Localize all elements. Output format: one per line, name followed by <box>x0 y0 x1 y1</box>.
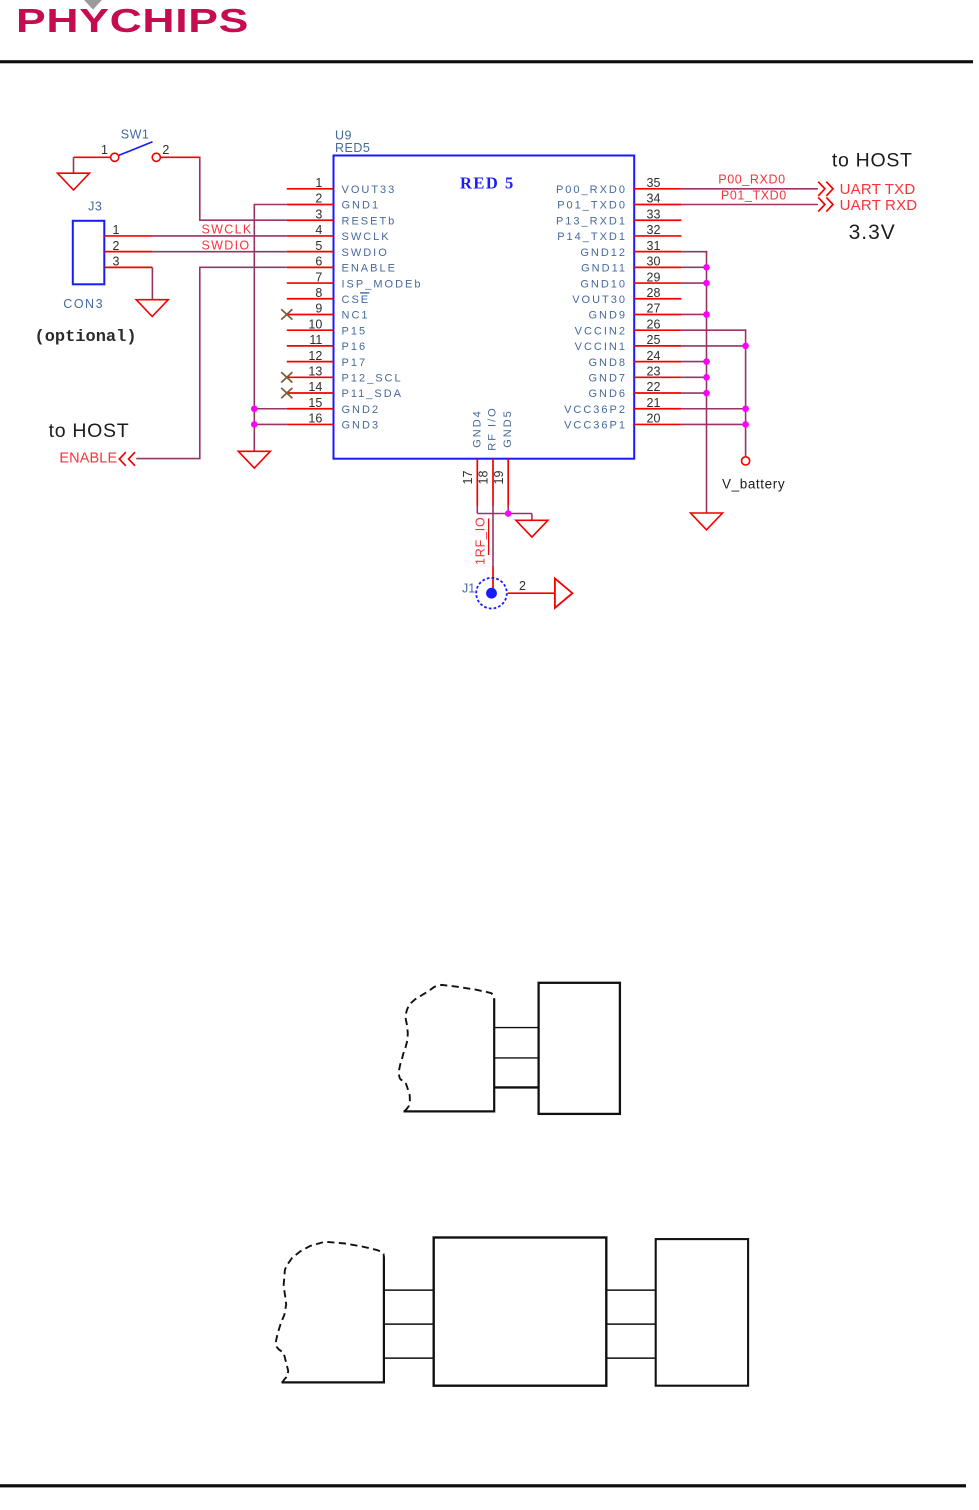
figure A line 1 <box>494 1027 539 1029</box>
svg-text:3: 3 <box>113 255 120 269</box>
svg-text:GND5: GND5 <box>502 409 514 448</box>
wire SWDIO J3.2 to U9.5 <box>152 251 286 253</box>
pin stub right 24 <box>634 361 681 363</box>
svg-text:GND2: GND2 <box>342 404 381 416</box>
svg-text:PHYCHIPS: PHYCHIPS <box>16 3 249 39</box>
svg-text:1: 1 <box>315 176 322 190</box>
figure A blob solid edge <box>404 999 495 1112</box>
ground G5 right rail <box>691 513 723 530</box>
svg-text:25: 25 <box>647 333 661 347</box>
pin stub left 5 <box>287 251 334 253</box>
junction VCC36P2 <box>742 405 749 412</box>
svg-text:UART RXD: UART RXD <box>840 197 918 214</box>
wire VCC36P2 to rail <box>681 408 745 410</box>
junction GND2 <box>251 405 258 412</box>
svg-text:P13_RXD1: P13_RXD1 <box>556 215 627 227</box>
svg-text:18: 18 <box>477 471 491 485</box>
no-connect X pin 9 <box>281 309 292 319</box>
svg-text:P00_RXD0: P00_RXD0 <box>556 184 627 196</box>
svg-text:20: 20 <box>647 412 661 426</box>
wire P00_RXD0 <box>681 188 818 190</box>
pin stub right 27 <box>634 313 681 315</box>
wire SWCLK J3.1 to U9.4 <box>152 235 286 237</box>
pin stub left 8 <box>287 298 334 300</box>
figure B right line 3 <box>606 1357 655 1359</box>
wire J3 pin3 to ground <box>151 267 153 300</box>
wire SW1 pin1 to ground <box>73 157 75 173</box>
svg-text:to HOST: to HOST <box>49 420 130 442</box>
wire VCCIN1 to rail <box>681 345 745 347</box>
svg-text:16: 16 <box>308 412 322 426</box>
terminal circle V_battery <box>742 457 750 465</box>
svg-text:32: 32 <box>647 223 661 237</box>
svg-text:17: 17 <box>461 471 475 485</box>
svg-text:2: 2 <box>162 143 169 157</box>
svg-text:GND10: GND10 <box>580 278 627 290</box>
svg-text:J1: J1 <box>462 582 475 596</box>
wire VCC36P1 to rail <box>681 423 745 425</box>
underline of RF_IO label <box>488 519 490 556</box>
connector J1 circle <box>476 578 507 609</box>
svg-text:3: 3 <box>315 207 322 221</box>
svg-text:ENABLE: ENABLE <box>342 263 397 275</box>
pin stub bottom 18 <box>492 459 494 506</box>
pin stub right 23 <box>634 376 681 378</box>
wire GND9 to rail <box>681 313 706 315</box>
svg-text:VCCIN2: VCCIN2 <box>575 325 627 337</box>
svg-text:ISP_MODEb: ISP_MODEb <box>342 278 423 290</box>
figure B right line 2 <box>606 1323 655 1325</box>
wire SW1 pin2 down <box>199 157 201 221</box>
svg-text:P00_RXD0: P00_RXD0 <box>718 172 785 186</box>
pin stub right 31 <box>634 251 681 253</box>
junction GND6 <box>703 390 710 397</box>
figure B left line 2 <box>383 1323 434 1325</box>
pin stub right 21 <box>634 408 681 410</box>
wire GND2 horizontal <box>254 408 286 410</box>
wire ENABLE horizontal to U9.6 <box>200 266 287 268</box>
pin stub right 34 <box>634 204 681 206</box>
svg-text:P17: P17 <box>342 357 368 369</box>
logo triangle <box>84 0 102 10</box>
figure A line 3 <box>494 1086 539 1088</box>
pin stub right 32 <box>634 235 681 237</box>
svg-text:2: 2 <box>315 192 322 206</box>
wire GND11 to rail <box>681 266 706 268</box>
svg-text:5: 5 <box>315 239 322 253</box>
figure B left line 3 <box>383 1357 434 1359</box>
svg-text:P14_TXD1: P14_TXD1 <box>557 231 627 243</box>
svg-text:12: 12 <box>308 349 322 363</box>
svg-text:VCC36P2: VCC36P2 <box>564 404 627 416</box>
ground G3 left rail <box>238 451 270 468</box>
svg-text:29: 29 <box>647 270 661 284</box>
wire to ground G4 <box>531 514 533 521</box>
ground G2 under J3 <box>136 300 168 317</box>
junction GND7 <box>703 374 710 381</box>
wire GND12 corner <box>681 251 707 253</box>
svg-text:24: 24 <box>647 349 661 363</box>
wire GND8 to rail <box>681 361 706 363</box>
svg-text:6: 6 <box>315 255 322 269</box>
SW1 pin1 stub <box>74 156 111 158</box>
svg-text:GND4: GND4 <box>471 409 483 448</box>
wire GND4 down <box>476 505 478 514</box>
no-connect X pin 13 <box>281 372 292 382</box>
junction GND3 <box>251 421 258 428</box>
pin stub left 13 <box>287 376 334 378</box>
pin stub right 28 <box>634 298 681 300</box>
svg-text:SW1: SW1 <box>121 128 150 142</box>
svg-text:2: 2 <box>113 239 120 253</box>
svg-text:SWDIO: SWDIO <box>342 247 389 259</box>
svg-text:1: 1 <box>113 223 120 237</box>
port chevron ENABLE << <box>119 452 135 466</box>
svg-text:8: 8 <box>315 286 322 300</box>
svg-text:CSE: CSE <box>342 294 371 306</box>
pin stub left 7 <box>287 282 334 284</box>
svg-text:P01_TXD0: P01_TXD0 <box>557 200 627 212</box>
figure A blob (dashed region) <box>399 985 494 1111</box>
svg-text:CON3: CON3 <box>63 297 104 311</box>
wire GND1 horizontal <box>254 204 286 206</box>
pin stub bottom 17 <box>476 459 478 506</box>
svg-text:RED 5: RED 5 <box>460 174 515 193</box>
svg-text:1: 1 <box>101 143 108 157</box>
svg-text:RF I/O: RF I/O <box>487 406 499 450</box>
top rule <box>0 60 973 63</box>
figure B blob solid edge <box>282 1257 384 1383</box>
svg-text:2: 2 <box>519 579 526 593</box>
pin stub left 6 <box>287 266 334 268</box>
SW1 pin2 stub <box>160 156 199 158</box>
pin stub right 20 <box>634 423 681 425</box>
svg-text:11: 11 <box>309 333 322 347</box>
svg-text:14: 14 <box>308 380 322 394</box>
svg-text:(optional): (optional) <box>35 328 137 347</box>
offpage arrow RF out <box>555 578 573 608</box>
svg-text:P01_TXD0: P01_TXD0 <box>721 189 787 203</box>
pin stub right 26 <box>634 329 681 331</box>
wire VCCIN2 corner <box>681 329 746 331</box>
svg-text:UART TXD: UART TXD <box>840 181 916 198</box>
svg-text:RED5: RED5 <box>335 141 370 155</box>
svg-text:21: 21 <box>647 396 661 410</box>
J1 pin2 stub <box>508 592 555 594</box>
bottom rule <box>0 1484 966 1487</box>
svg-text:GND3: GND3 <box>342 420 381 432</box>
svg-text:23: 23 <box>647 365 661 379</box>
svg-text:P11_SDA: P11_SDA <box>342 388 404 400</box>
J3 pin stub 2 <box>104 251 152 253</box>
junction GND10 <box>703 280 710 287</box>
overline on E of CSE <box>360 292 369 294</box>
figure B middle box <box>434 1238 607 1386</box>
pin stub right 33 <box>634 219 681 221</box>
junction GND8 <box>703 358 710 365</box>
connector J1 stub <box>492 567 494 591</box>
pin stub left 14 <box>287 392 334 394</box>
svg-text:GND11: GND11 <box>581 263 627 275</box>
pin stub left 4 <box>287 235 334 237</box>
ground G1 under SW1 <box>58 173 90 190</box>
svg-text:V_battery: V_battery <box>722 476 785 491</box>
pin stub left 2 <box>287 204 334 206</box>
switch SW1 pin2 circle <box>152 153 160 161</box>
pin stub right 25 <box>634 345 681 347</box>
wire GND5 down <box>507 505 509 514</box>
svg-text:RESETb: RESETb <box>342 215 397 227</box>
svg-text:34: 34 <box>647 192 661 206</box>
pin stub right 35 <box>634 188 681 190</box>
svg-text:VCCIN1: VCCIN1 <box>575 341 627 353</box>
svg-text:26: 26 <box>647 317 661 331</box>
svg-text:4: 4 <box>315 223 322 237</box>
pin stub bottom 19 <box>507 459 509 506</box>
wire GND6 to rail <box>681 392 706 394</box>
svg-text:NC1: NC1 <box>342 310 370 322</box>
pin stub left 16 <box>287 423 334 425</box>
figure A box <box>539 983 620 1114</box>
wire GND7 to rail <box>681 376 706 378</box>
svg-text:P15: P15 <box>342 325 368 337</box>
pin stub right 22 <box>634 392 681 394</box>
svg-text:VOUT33: VOUT33 <box>342 184 397 196</box>
junction GND11 <box>703 264 710 271</box>
wire right GND rail vertical <box>706 251 708 513</box>
wire GND3 horizontal <box>254 423 286 425</box>
svg-text:30: 30 <box>647 255 661 269</box>
connector J1 center dot <box>486 588 497 599</box>
svg-text:10: 10 <box>308 317 322 331</box>
svg-text:7: 7 <box>315 270 322 284</box>
wire bottom gnd horizontal <box>477 513 532 515</box>
svg-text:ENABLE: ENABLE <box>59 451 117 467</box>
ground G4 bottom <box>516 520 548 537</box>
svg-text:35: 35 <box>647 176 661 190</box>
figure B right box <box>656 1239 748 1386</box>
wire GND10 to rail <box>681 282 706 284</box>
wire GND rail vertical <box>253 204 255 452</box>
wire ENABLE vertical <box>199 267 201 459</box>
svg-text:1RF_IO: 1RF_IO <box>473 516 487 565</box>
junction VCCIN1 <box>742 343 749 350</box>
pin stub right 29 <box>634 282 681 284</box>
svg-text:SWCLK: SWCLK <box>342 231 391 243</box>
svg-text:SWCLK: SWCLK <box>202 223 253 237</box>
pin stub left 15 <box>287 408 334 410</box>
svg-text:J3: J3 <box>88 199 102 213</box>
svg-text:GND6: GND6 <box>588 388 627 400</box>
junction GND9 <box>703 311 710 318</box>
junction VCC36P1 <box>742 421 749 428</box>
svg-text:GND9: GND9 <box>588 310 627 322</box>
svg-text:19: 19 <box>492 471 506 485</box>
svg-text:GND7: GND7 <box>588 373 627 385</box>
svg-text:22: 22 <box>647 380 661 394</box>
port chevron UART RXD >> <box>818 197 833 211</box>
switch SW1 pin1 circle <box>111 153 119 161</box>
pin stub left 11 <box>287 345 334 347</box>
pin stub left 3 <box>287 219 334 221</box>
svg-text:13: 13 <box>308 365 322 379</box>
svg-text:15: 15 <box>308 396 322 410</box>
svg-text:SWDIO: SWDIO <box>202 238 251 252</box>
connector J3 body <box>73 221 105 284</box>
J3 pin stub 3 <box>104 266 152 268</box>
junction GND5 join <box>505 510 512 517</box>
figure B blob (dashed region) <box>276 1242 384 1383</box>
svg-text:P16: P16 <box>342 341 368 353</box>
svg-text:33: 33 <box>647 207 661 221</box>
svg-text:28: 28 <box>647 286 661 300</box>
figure B left line 1 <box>383 1289 434 1291</box>
svg-text:GND8: GND8 <box>588 357 627 369</box>
wire RF net <box>492 505 494 567</box>
pin stub left 12 <box>287 361 334 363</box>
svg-text:31: 31 <box>647 239 661 253</box>
svg-text:to HOST: to HOST <box>832 149 913 171</box>
svg-text:P12_SCL: P12_SCL <box>342 373 403 385</box>
wire P01_TXD0 <box>681 204 818 206</box>
port chevron UART TXD >> <box>818 182 833 196</box>
pin stub left 10 <box>287 329 334 331</box>
J3 pin stub 1 <box>104 235 152 237</box>
op-chip U9 RED5 body <box>334 156 635 459</box>
wire to RESETb pin3 <box>199 219 287 221</box>
svg-text:27: 27 <box>647 302 661 316</box>
svg-text:VCC36P1: VCC36P1 <box>564 420 627 432</box>
svg-text:VOUT30: VOUT30 <box>572 294 627 306</box>
pin stub right 30 <box>634 266 681 268</box>
svg-text:GND1: GND1 <box>342 200 381 212</box>
svg-text:GND12: GND12 <box>580 247 627 259</box>
no-connect X pin 14 <box>281 388 292 398</box>
wire ENABLE to port <box>136 458 200 460</box>
svg-text:9: 9 <box>315 302 322 316</box>
pin stub left 1 <box>287 188 334 190</box>
svg-text:3.3V: 3.3V <box>849 221 896 244</box>
figure A line 2 <box>494 1057 539 1059</box>
figure B right line 1 <box>606 1289 655 1291</box>
pin stub left 9 <box>287 313 334 315</box>
wire VCC rail vertical <box>745 329 747 456</box>
switch SW1 lever <box>119 142 153 156</box>
